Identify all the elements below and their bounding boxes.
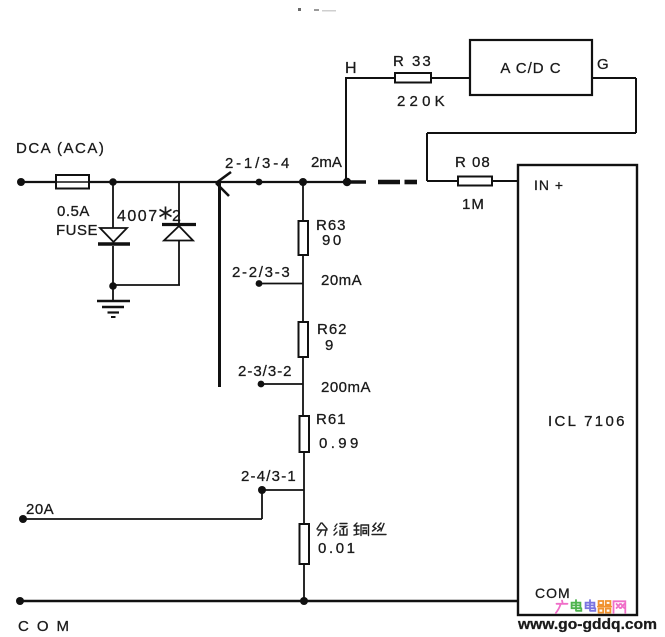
label 2-1/3-4	[225, 155, 292, 172]
label R61 0.99	[316, 411, 362, 452]
node ground junction	[109, 282, 117, 290]
wire rail left segment	[21, 181, 56, 183]
resistor R62	[299, 322, 309, 357]
svg-text:COM: COM	[18, 618, 77, 635]
ground	[97, 286, 130, 317]
terminal DCA input	[17, 178, 25, 186]
wire G loop	[427, 78, 636, 181]
label R63 90	[316, 217, 347, 249]
wire divider column top	[302, 182, 304, 221]
label R62 9	[317, 321, 348, 354]
svg-text:2-2/3-3: 2-2/3-3	[232, 264, 291, 281]
wire tap 20A	[23, 490, 304, 519]
resistor shunt wire	[300, 524, 310, 564]
svg-text:220K: 220K	[397, 93, 449, 110]
wire R61 to shunt	[303, 452, 305, 524]
svg-text:0.01: 0.01	[318, 540, 358, 557]
svg-text:0.99: 0.99	[319, 435, 362, 452]
wire rail main segment	[89, 181, 348, 183]
switch wiper S	[216, 172, 231, 387]
block AC/DC converter	[470, 40, 592, 95]
label 2-4/3-1	[241, 468, 297, 485]
label DCA (ACA)	[16, 140, 105, 157]
wire dashed break	[378, 180, 417, 185]
svg-text:COM: COM	[535, 585, 571, 601]
node rail H junction	[343, 178, 351, 186]
svg-text:20A: 20A	[26, 501, 54, 518]
svg-text:R 33: R 33	[393, 53, 433, 70]
diode D1 4007 (cathode down)	[98, 182, 130, 286]
node diode D1 top	[109, 178, 117, 186]
label H	[345, 60, 357, 77]
wire rail stub	[347, 180, 366, 184]
svg-text:G: G	[597, 56, 609, 73]
svg-text:2-1/3-4: 2-1/3-4	[225, 155, 292, 172]
svg-text:2-3/3-2: 2-3/3-2	[238, 363, 293, 380]
label 20A	[26, 501, 54, 518]
svg-text:2-4/3-1: 2-4/3-1	[241, 468, 297, 485]
terminal COM	[16, 597, 24, 605]
node rail R63 junction	[299, 178, 307, 186]
resistor R08	[458, 177, 492, 186]
wire R33 to AC/DC box	[431, 77, 470, 79]
resistor R63	[299, 221, 309, 255]
wire R08 to IN+	[492, 180, 518, 182]
label 1M	[462, 196, 485, 213]
label 2-3/3-2	[238, 363, 293, 380]
wire H to R33	[346, 77, 395, 182]
label 2mA	[311, 154, 342, 171]
svg-text:R61: R61	[316, 411, 347, 428]
svg-text:R62: R62	[317, 321, 348, 338]
label fen-liu-tong-si (shunt copper wire)	[317, 523, 386, 536]
label 0.01	[318, 540, 358, 557]
svg-text:www.go-gddq.com: www.go-gddq.com	[517, 617, 657, 633]
svg-text:ICL 7106: ICL 7106	[548, 413, 627, 430]
wire COM rail	[20, 600, 518, 602]
svg-text:DCA (ACA): DCA (ACA)	[16, 140, 105, 157]
label COM terminal	[18, 618, 77, 635]
wire R62 to R61	[302, 357, 304, 416]
svg-text:90: 90	[322, 232, 344, 249]
wire tap 200mA	[261, 383, 303, 385]
label R 33	[393, 53, 433, 70]
label 20mA	[321, 272, 362, 289]
node contact 2-1	[256, 179, 263, 186]
watermark guangdian dianqi wang	[556, 600, 626, 613]
svg-text:200mA: 200mA	[321, 379, 371, 396]
label 200mA	[321, 379, 371, 396]
wire diode bottoms join	[113, 284, 180, 286]
svg-text:4007: 4007	[117, 208, 159, 225]
pin label COM	[535, 585, 571, 601]
svg-text:A C/D C: A C/D C	[500, 60, 561, 77]
svg-text:H: H	[345, 60, 357, 77]
watermark www.go-gddq.com	[517, 617, 657, 633]
wire to R08	[427, 180, 458, 182]
label ICL7106	[548, 413, 627, 430]
node contact 2-2	[256, 280, 263, 287]
wire shunt to COM rail	[303, 564, 305, 601]
label 4007*2	[117, 207, 181, 226]
fuse 0.5A	[56, 175, 89, 189]
label R 08	[455, 154, 491, 171]
label 0.5A FUSE	[56, 203, 98, 239]
label G	[597, 56, 609, 73]
label 220K	[397, 93, 449, 110]
resistor R61	[300, 416, 310, 452]
diode D2 4007 (cathode up)	[162, 182, 196, 285]
label 2-2/3-3	[232, 264, 291, 281]
svg-text:9: 9	[325, 337, 334, 354]
scan speck top center	[298, 8, 336, 12]
svg-text:0.5A: 0.5A	[57, 203, 90, 220]
wire R63 to R62	[302, 255, 304, 322]
node shunt COM junction	[300, 597, 308, 605]
svg-text:R 08: R 08	[455, 154, 491, 171]
svg-text:2mA: 2mA	[311, 154, 342, 171]
terminal 20A	[19, 515, 27, 523]
node contact 2-3	[258, 381, 265, 388]
svg-text:IN +: IN +	[534, 177, 564, 193]
svg-text:FUSE: FUSE	[56, 222, 98, 239]
IC U1 ICL7106	[518, 165, 637, 615]
pin label IN+	[534, 177, 564, 193]
svg-text:20mA: 20mA	[321, 272, 362, 289]
svg-text:1M: 1M	[462, 196, 485, 213]
node contact 2-4	[258, 486, 266, 494]
wire tap 20mA	[259, 283, 303, 285]
resistor R33	[395, 73, 431, 83]
